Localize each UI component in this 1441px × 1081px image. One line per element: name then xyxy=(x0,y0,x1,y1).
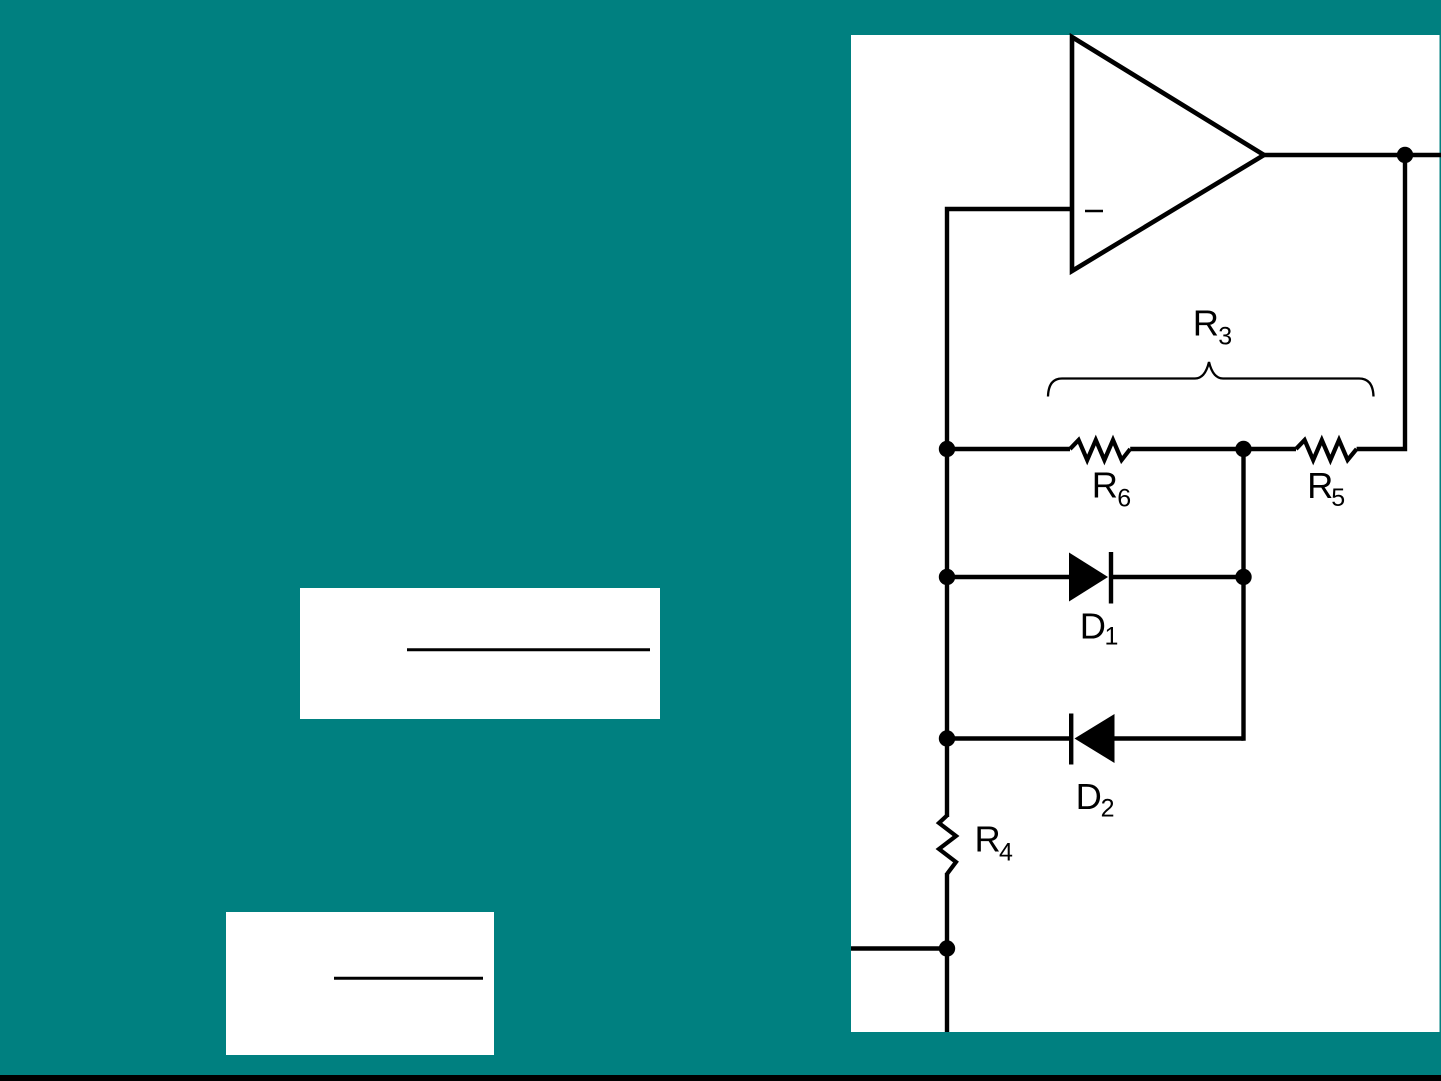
op-amp U1 xyxy=(1072,37,1264,271)
node: left rail / D1 junction xyxy=(939,569,955,585)
svg-text:R: R xyxy=(1092,465,1118,506)
brace for R3 over R6 and R5 xyxy=(1048,362,1374,397)
wire: D1 row left segment xyxy=(947,575,1070,579)
node: R6-R5 junction xyxy=(1235,441,1251,457)
svg-text:2: 2 xyxy=(1101,795,1115,823)
wire: feedback row middle segment xyxy=(1130,447,1296,451)
wire: middle vertical rail xyxy=(1241,449,1245,741)
svg-text:R: R xyxy=(1193,303,1219,344)
white circuit panel xyxy=(851,35,1440,1032)
wire: D2 row left segment xyxy=(947,736,1069,740)
node: left rail / input stub junction xyxy=(939,940,955,956)
fraction bar in equation box 2 xyxy=(334,977,483,980)
svg-text:3: 3 xyxy=(1218,322,1232,350)
svg-text:1: 1 xyxy=(1105,622,1119,650)
svg-text:R: R xyxy=(975,819,1001,860)
minus sign (inverting input) xyxy=(1085,210,1103,213)
wire: D2 row right segment xyxy=(1115,736,1244,740)
resistor R5 xyxy=(1296,440,1357,460)
svg-text:4: 4 xyxy=(999,838,1013,866)
bottom black strip xyxy=(0,1075,1441,1081)
equation box 2 xyxy=(226,912,494,1055)
wire: right vertical from output down to R5 xyxy=(1357,155,1405,449)
resistor R6 xyxy=(1070,440,1130,460)
equation box 1 xyxy=(300,588,660,719)
svg-text:6: 6 xyxy=(1117,485,1131,513)
svg-text:D: D xyxy=(1080,606,1106,647)
svg-text:R: R xyxy=(1307,465,1333,506)
node: output junction xyxy=(1397,147,1413,163)
wire: inverting input to left vertical rail xyxy=(947,209,1072,817)
resistor R4 xyxy=(939,816,956,875)
svg-text:5: 5 xyxy=(1331,484,1345,512)
wire: op-amp output to right edge xyxy=(1262,153,1441,157)
diode D2 (anode triangle, pointing left) xyxy=(1075,714,1115,763)
wire: left rail below R4 to panel bottom xyxy=(945,873,949,1032)
diode D1 (anode triangle) xyxy=(1069,553,1108,602)
wire: D1 row right segment xyxy=(1113,575,1244,579)
svg-text:D: D xyxy=(1076,776,1102,817)
diode D1 cathode bar xyxy=(1109,552,1113,604)
fraction bar in equation box 1 xyxy=(407,648,650,651)
diode D2 cathode bar xyxy=(1069,714,1073,765)
wire: feedback row left segment xyxy=(947,447,1070,451)
node: left rail / D2 junction xyxy=(939,730,955,746)
wire: input stub at bottom left of panel xyxy=(851,946,947,950)
node: left rail / feedback row junction xyxy=(939,441,955,457)
node: middle rail / D1 junction xyxy=(1235,569,1251,585)
